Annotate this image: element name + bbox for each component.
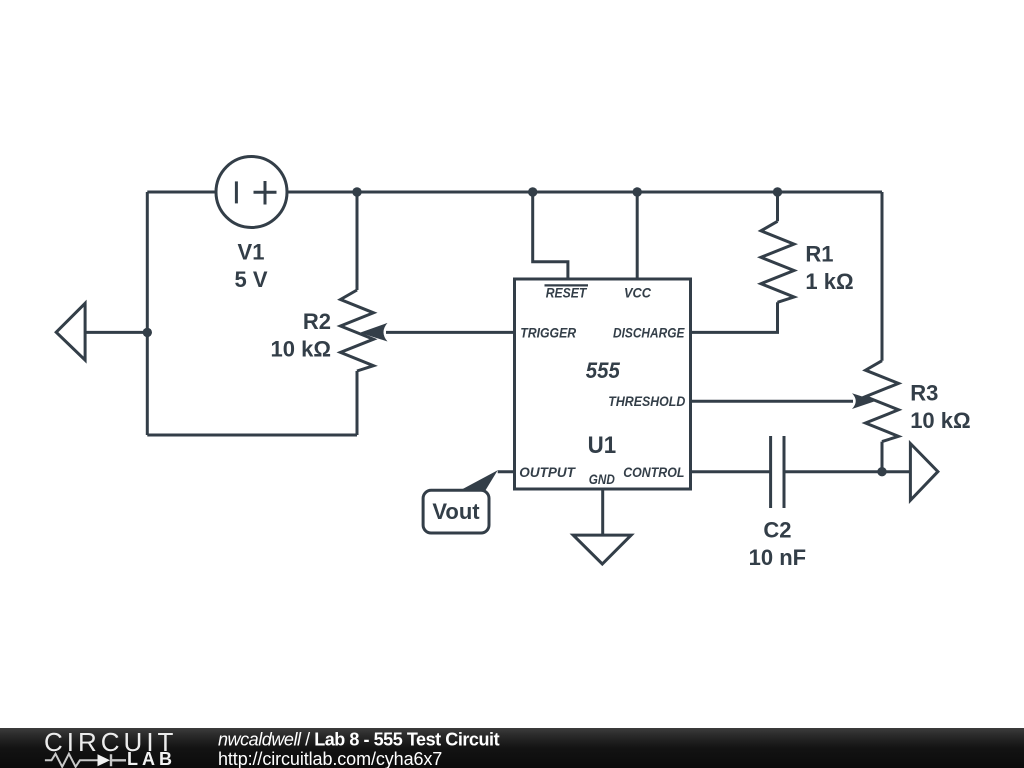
wire left rail down: [146, 192, 149, 435]
svg-text:VCC: VCC: [624, 286, 651, 301]
svg-text:10 nF: 10 nF: [749, 545, 806, 570]
svg-text:RESET: RESET: [546, 286, 588, 301]
wire R2 bottom stub: [356, 371, 359, 435]
op-amp U1 555 box: [515, 279, 691, 489]
wire right rail to R3: [881, 192, 884, 361]
svg-text:Vout: Vout: [432, 499, 480, 524]
wire RESET jog: [533, 192, 568, 279]
svg-text:U1: U1: [588, 432, 617, 459]
R3 wiper arrowhead: [852, 393, 876, 409]
node flag right triangle: [910, 444, 938, 501]
wire C2 to right node: [784, 470, 910, 473]
wire TRIGGER to R2 wiper: [386, 331, 515, 334]
svg-text:TRIGGER: TRIGGER: [520, 326, 576, 341]
svg-text:nwcaldwell / Lab 8 - 555 Test: nwcaldwell / Lab 8 - 555 Test Circuit: [218, 729, 500, 749]
Vout flag pointer: [459, 470, 497, 491]
V1 minus bar: [235, 181, 238, 203]
svg-text:1 kΩ: 1 kΩ: [805, 269, 853, 294]
R2 wiper arrowhead: [360, 323, 388, 342]
node junction dot R1: [773, 187, 782, 196]
svg-text:R1: R1: [805, 242, 833, 267]
node junction dot right node: [877, 467, 886, 476]
node junction dot RESET: [528, 187, 537, 196]
logo resistor zigzag: [45, 754, 98, 767]
svg-text:10 kΩ: 10 kΩ: [271, 337, 331, 362]
svg-text:http://circuitlab.com/cyha6x7: http://circuitlab.com/cyha6x7: [218, 749, 442, 768]
svg-text:10 kΩ: 10 kΩ: [910, 408, 970, 433]
node junction dot VCC: [633, 187, 642, 196]
resistor R2 zigzag: [341, 290, 374, 371]
wire top rail: [147, 191, 882, 194]
wire R1 bottom to DISCHARGE: [691, 302, 778, 332]
wire CONTROL to C2: [691, 470, 771, 473]
svg-text:C2: C2: [763, 518, 791, 543]
wire R2 top stub: [356, 192, 359, 290]
resistor R3 zigzag: [866, 361, 899, 442]
svg-text:CONTROL: CONTROL: [623, 465, 684, 480]
node junction dot left flag: [143, 328, 152, 337]
ground symbol under GND: [573, 535, 631, 564]
svg-text:THRESHOLD: THRESHOLD: [608, 394, 685, 409]
wire bottom left horizontal: [147, 434, 357, 437]
logo diode: [98, 754, 111, 766]
svg-text:GND: GND: [589, 472, 615, 487]
svg-text:R2: R2: [303, 309, 331, 334]
wire THRESHOLD to R3 wiper: [691, 400, 854, 403]
footer bar: [0, 728, 1024, 768]
svg-text:LAB: LAB: [127, 749, 176, 768]
svg-text:R3: R3: [910, 381, 938, 406]
svg-text:555: 555: [586, 358, 621, 383]
wire R3 bottom stub: [881, 442, 884, 472]
svg-text:V1: V1: [238, 239, 265, 264]
wire GND drop: [601, 489, 604, 535]
wire OUTPUT stub: [498, 470, 515, 473]
resistor R1 zigzag: [761, 221, 794, 302]
svg-text:OUTPUT: OUTPUT: [519, 465, 576, 480]
wire VCC drop: [636, 192, 639, 279]
V1 plus sign: [254, 181, 277, 205]
voltage source V1 circle: [216, 157, 287, 228]
node junction dot top V1-R2: [352, 187, 361, 196]
svg-text:5 V: 5 V: [234, 267, 267, 292]
wire left flag to rail: [85, 331, 147, 334]
Vout flag box: [423, 490, 489, 533]
wire R1 top stub: [776, 192, 779, 221]
svg-text:DISCHARGE: DISCHARGE: [613, 326, 685, 341]
capacitor C2 plates: [771, 436, 784, 508]
ground flag left triangle: [56, 303, 85, 360]
